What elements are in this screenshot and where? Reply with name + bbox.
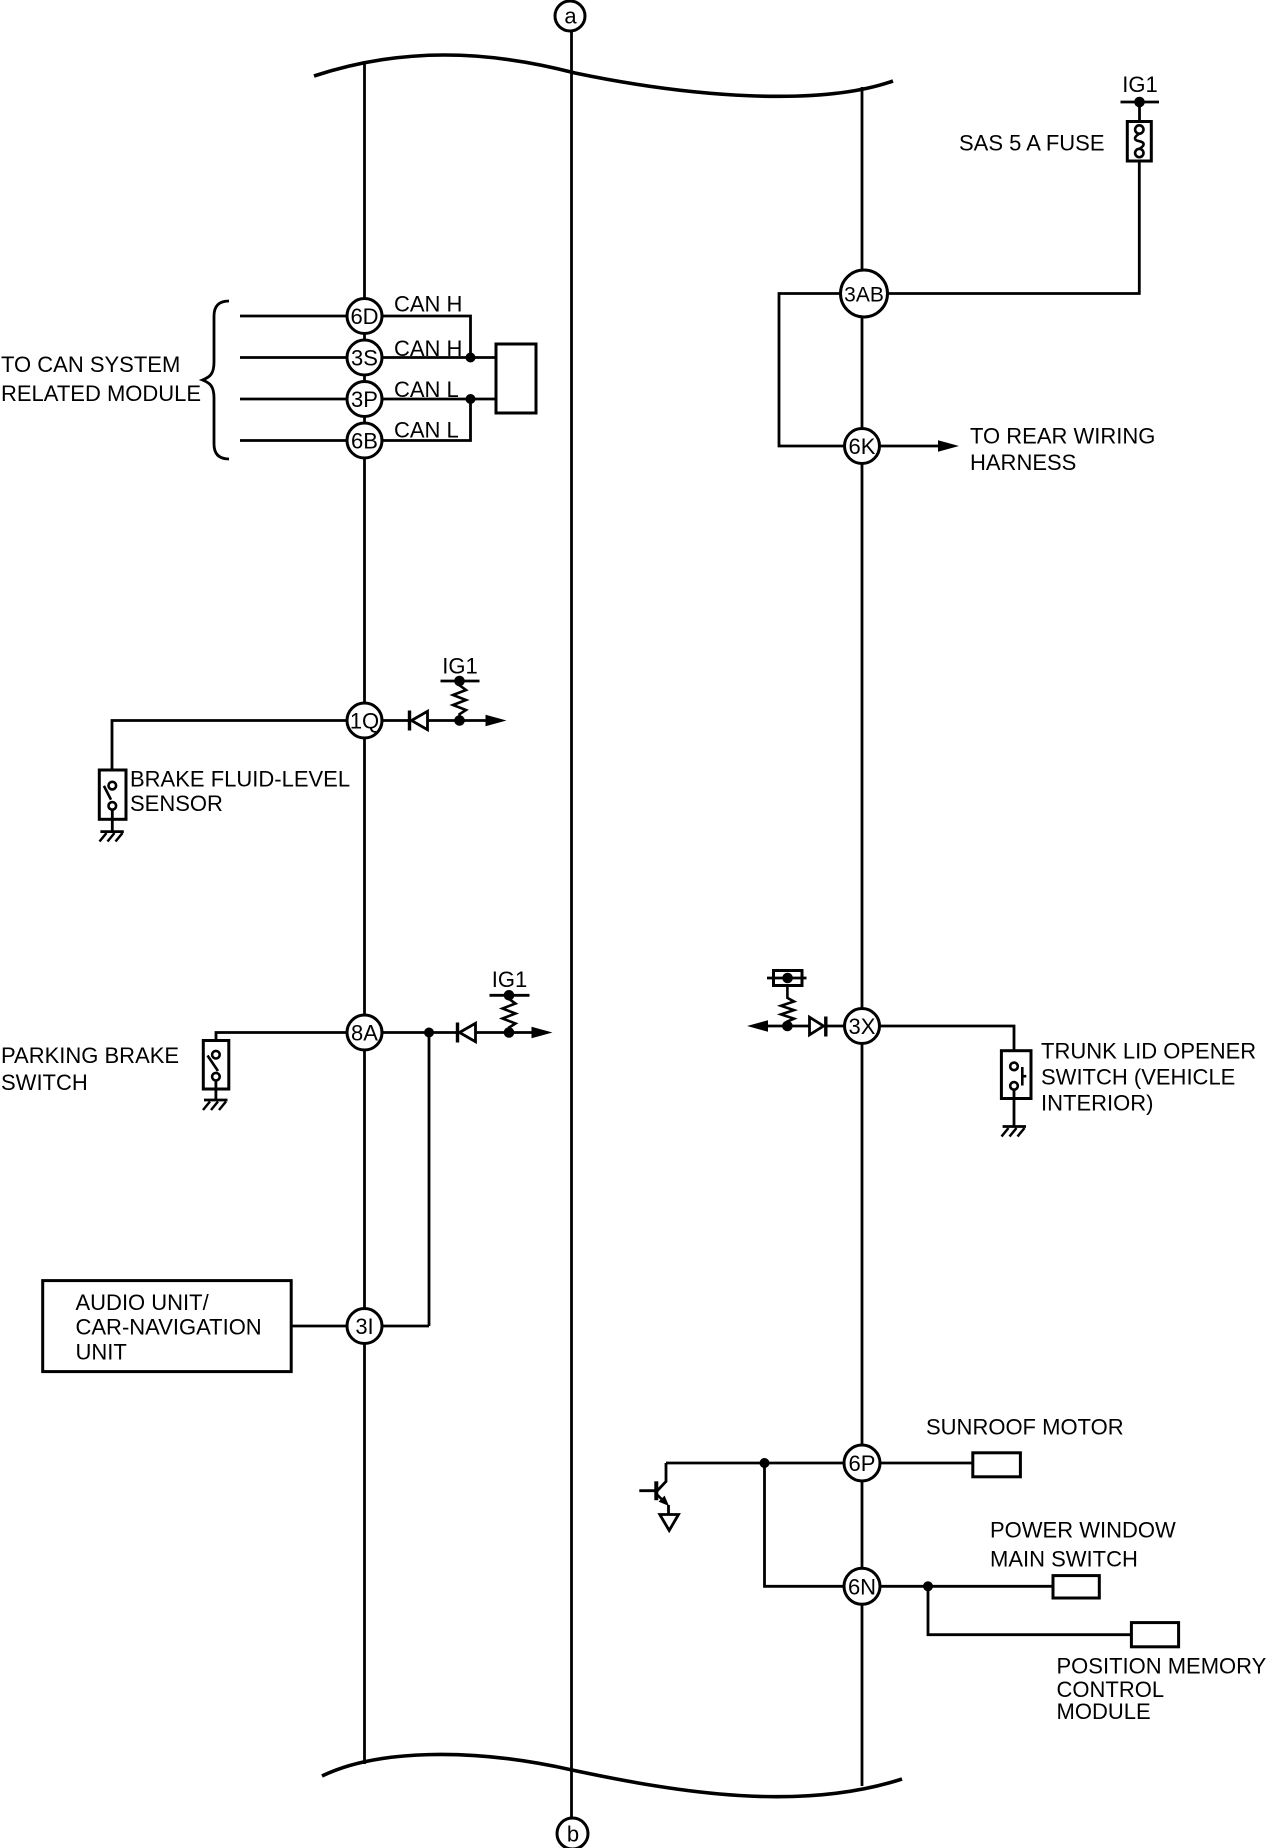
arrow (8A output) bbox=[532, 1027, 553, 1039]
arrow (1Q output) bbox=[486, 715, 507, 727]
connector 6K bbox=[845, 429, 880, 464]
svg-text:RELATED MODULE: RELATED MODULE bbox=[1, 381, 201, 406]
diode D1 (1Q row) bbox=[410, 711, 428, 731]
svg-text:6K: 6K bbox=[849, 434, 876, 459]
power feed IG1 (fuse) bbox=[1121, 72, 1160, 126]
wire: 1Q to diode bbox=[382, 719, 409, 722]
CAN terminator module box bbox=[496, 344, 536, 413]
open arrow (transistor continuation) bbox=[660, 1515, 679, 1531]
node a bbox=[555, 1, 585, 31]
connector 3I bbox=[347, 1309, 382, 1344]
wire: diode to arrow (8A row) bbox=[476, 1031, 533, 1034]
svg-text:MODULE: MODULE bbox=[1057, 1699, 1151, 1724]
svg-text:HARNESS: HARNESS bbox=[970, 450, 1076, 475]
svg-text:CAN L: CAN L bbox=[394, 418, 459, 443]
node b bbox=[557, 1818, 588, 1848]
resistor (1Q pull-up) bbox=[453, 681, 466, 721]
svg-text:6N: 6N bbox=[848, 1574, 876, 1599]
svg-text:IG1: IG1 bbox=[492, 967, 527, 992]
connector 8A bbox=[347, 1015, 382, 1050]
wire: left bus bbox=[363, 61, 366, 1764]
wire: stub to 3S bbox=[240, 356, 347, 359]
power feed symbol (3X row) bbox=[767, 971, 807, 986]
svg-text:MAIN SWITCH: MAIN SWITCH bbox=[990, 1547, 1138, 1572]
wire: right bus bbox=[861, 87, 864, 1786]
junction dot CAN H bbox=[466, 353, 476, 363]
connector 6P bbox=[844, 1445, 880, 1481]
svg-text:3P: 3P bbox=[351, 387, 378, 412]
connector 3S bbox=[347, 340, 382, 375]
arrow to rear wiring harness bbox=[938, 440, 959, 452]
junction dot CAN L bbox=[466, 394, 476, 404]
svg-text:PARKING BRAKE: PARKING BRAKE bbox=[1, 1043, 179, 1068]
wire: 3P to CAN terminator bbox=[382, 398, 496, 401]
svg-text:3X: 3X bbox=[849, 1014, 876, 1039]
harness break wave (top) bbox=[314, 55, 893, 96]
wire: 6B to junction bbox=[382, 399, 471, 441]
svg-text:3I: 3I bbox=[355, 1314, 373, 1339]
svg-text:IG1: IG1 bbox=[442, 654, 477, 679]
connector 3X bbox=[845, 1009, 880, 1044]
connector 3P bbox=[347, 382, 382, 417]
svg-text:TO REAR WIRING: TO REAR WIRING bbox=[970, 424, 1155, 449]
wire: stub to 3P bbox=[240, 398, 347, 401]
svg-text:6D: 6D bbox=[350, 304, 378, 329]
wire: 8A junction down to 3I bbox=[428, 1033, 431, 1327]
ground (parking brake switch) bbox=[203, 1100, 228, 1110]
junction dot (1Q row) bbox=[454, 715, 465, 726]
wire: diode to 3X bbox=[826, 1025, 845, 1028]
resistor (3X pull-up) bbox=[781, 986, 794, 1027]
wire: 3S to CAN terminator bbox=[382, 356, 496, 359]
svg-text:CAN H: CAN H bbox=[394, 336, 462, 361]
wire: 6P junction down to 6N bbox=[765, 1463, 845, 1586]
wire: 8A to diode bbox=[382, 1031, 457, 1034]
wire: arrow to diode (3X row) bbox=[767, 1025, 810, 1028]
svg-text:INTERIOR): INTERIOR) bbox=[1041, 1091, 1153, 1116]
wire: stub to 6D bbox=[240, 315, 347, 318]
arrow (3X output, pointing left) bbox=[747, 1020, 768, 1032]
harness break wave (bottom) bbox=[322, 1754, 902, 1796]
svg-text:SAS 5 A FUSE: SAS 5 A FUSE bbox=[959, 131, 1105, 156]
svg-text:a: a bbox=[564, 4, 577, 29]
svg-text:SWITCH: SWITCH bbox=[1, 1070, 88, 1095]
svg-text:3AB: 3AB bbox=[844, 284, 884, 307]
parking brake switch bbox=[203, 1041, 229, 1101]
power feed IG1 (8A row) bbox=[490, 967, 530, 1001]
wire: 6P left bbox=[666, 1462, 844, 1465]
svg-text:IG1: IG1 bbox=[1122, 72, 1157, 97]
svg-text:b: b bbox=[567, 1822, 579, 1847]
connector 6B bbox=[347, 423, 382, 458]
svg-text:CAN H: CAN H bbox=[394, 292, 462, 317]
wire: 6P to sunroof motor box bbox=[880, 1462, 973, 1465]
junction dot (3X pull-up) bbox=[782, 1021, 793, 1032]
svg-text:SUNROOF MOTOR: SUNROOF MOTOR bbox=[926, 1415, 1124, 1440]
wire: diode to arrow bbox=[428, 719, 487, 722]
wire: 6D to junction bbox=[382, 316, 471, 358]
svg-text:TRUNK LID OPENER: TRUNK LID OPENER bbox=[1041, 1039, 1256, 1064]
resistor (8A pull-up) bbox=[503, 995, 516, 1032]
transistor Q1 bbox=[639, 1463, 669, 1515]
brace: TO CAN SYSTEM RELATED MODULE bbox=[203, 301, 230, 459]
wire: 6K to rear harness arrow bbox=[880, 445, 940, 448]
svg-text:UNIT: UNIT bbox=[76, 1340, 127, 1365]
svg-text:TO CAN SYSTEM: TO CAN SYSTEM bbox=[1, 352, 180, 377]
connector 3AB bbox=[841, 270, 888, 317]
ground (brake fluid sensor) bbox=[100, 832, 124, 842]
wire: 1Q left to sensor bbox=[112, 721, 347, 783]
svg-text:BRAKE FLUID-LEVEL: BRAKE FLUID-LEVEL bbox=[130, 767, 350, 792]
wire: 6N junction to position memory module bbox=[928, 1586, 1131, 1634]
wire: fuse to 3AB bbox=[888, 161, 1139, 294]
wire: 8A left to switch bbox=[216, 1033, 347, 1053]
wire: 6N to power window switch box bbox=[880, 1585, 1053, 1588]
diode D3 (3X row) bbox=[810, 1017, 826, 1037]
junction dot (6P row) bbox=[760, 1458, 770, 1468]
svg-text:SWITCH (VEHICLE: SWITCH (VEHICLE bbox=[1041, 1065, 1235, 1090]
wire: 3AB left branch down to 6K bbox=[779, 294, 845, 447]
trunk lid opener switch bbox=[1001, 1051, 1031, 1127]
junction dot (8A row) bbox=[424, 1028, 434, 1038]
svg-text:CAN L: CAN L bbox=[394, 377, 459, 402]
svg-text:1Q: 1Q bbox=[350, 709, 379, 734]
wire: 3X right to trunk switch bbox=[880, 1026, 1015, 1063]
wire: middle bus (a to b) bbox=[570, 28, 573, 1820]
svg-text:3S: 3S bbox=[351, 346, 378, 371]
junction dot (6N row) bbox=[923, 1581, 933, 1591]
svg-text:6P: 6P bbox=[849, 1451, 876, 1476]
fuse SAS 5 A bbox=[959, 122, 1151, 162]
audio unit / car-navigation unit box bbox=[43, 1281, 292, 1372]
power feed IG1 (1Q row) bbox=[441, 654, 480, 687]
svg-text:POWER WINDOW: POWER WINDOW bbox=[990, 1518, 1176, 1543]
ground (trunk lid switch) bbox=[1002, 1127, 1027, 1137]
connector 6N bbox=[844, 1568, 880, 1604]
wire: 3I to 8A junction bbox=[382, 1325, 429, 1328]
svg-text:CAR-NAVIGATION: CAR-NAVIGATION bbox=[76, 1315, 262, 1340]
diode D2 (8A row) bbox=[458, 1023, 476, 1043]
sunroof motor box bbox=[973, 1453, 1021, 1477]
junction dot (8A pull-up) bbox=[504, 1027, 515, 1038]
svg-text:8A: 8A bbox=[351, 1021, 378, 1046]
wire: audio box to 3I bbox=[291, 1325, 347, 1328]
brake fluid-level sensor switch bbox=[99, 770, 126, 832]
wire: stub to 6B bbox=[240, 439, 347, 442]
position memory control module box bbox=[1131, 1623, 1178, 1647]
power window main switch box bbox=[1053, 1576, 1099, 1598]
svg-text:AUDIO UNIT/: AUDIO UNIT/ bbox=[76, 1290, 210, 1315]
svg-text:6B: 6B bbox=[351, 429, 378, 454]
svg-text:SENSOR: SENSOR bbox=[130, 791, 223, 816]
svg-text:POSITION MEMORY: POSITION MEMORY bbox=[1057, 1654, 1267, 1679]
connector 6D bbox=[347, 299, 382, 334]
connector 1Q bbox=[347, 703, 382, 738]
